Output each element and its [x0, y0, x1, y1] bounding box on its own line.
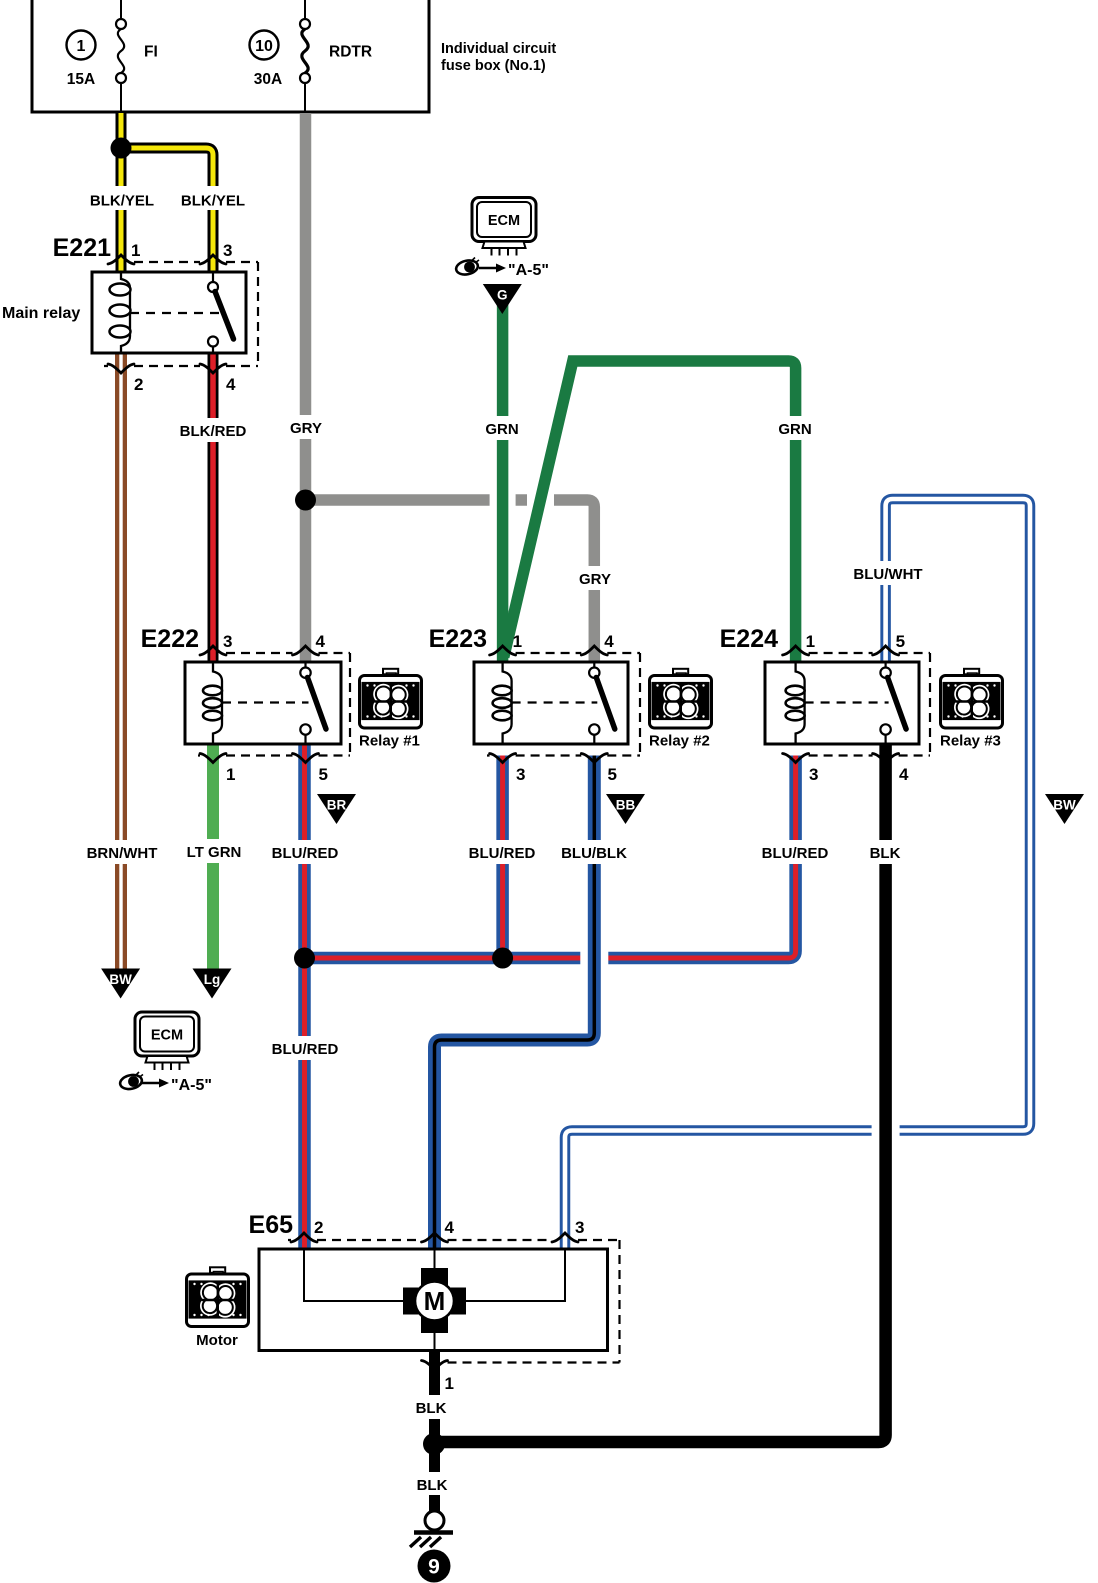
svg-text:1: 1: [77, 38, 86, 55]
svg-text:Relay #1: Relay #1: [359, 733, 420, 750]
E224 pin 3: [783, 754, 819, 785]
E65 pin 2: [291, 1218, 323, 1242]
svg-text:BLU/BLK: BLU/BLK: [561, 845, 627, 862]
svg-text:Relay #2: Relay #2: [649, 733, 710, 750]
relay E223: [474, 662, 628, 744]
E223 pin 5: [581, 754, 617, 785]
svg-text:"A-5": "A-5": [171, 1077, 212, 1094]
wire label GRY lower: [578, 566, 612, 590]
svg-text:GRN: GRN: [778, 421, 811, 438]
wire label BLU/RED d: [272, 1036, 339, 1060]
fuse 10 (RDTR 30A): [250, 0, 373, 113]
radiator fan icon Relay #1: [359, 669, 422, 750]
page arrow BR: [317, 794, 356, 824]
svg-text:BLU/RED: BLU/RED: [272, 845, 339, 862]
wire label BLU/WHT: [853, 561, 922, 585]
relay E222: [185, 662, 341, 744]
svg-text:BW: BW: [1053, 798, 1076, 813]
page arrow BW right: [1045, 794, 1084, 824]
ECM bottom: [135, 1012, 199, 1070]
svg-text:BW: BW: [109, 972, 132, 987]
E223 pin 3: [490, 754, 526, 785]
ground number 9: [418, 1550, 451, 1583]
wire label GRN left: [484, 416, 520, 440]
wire label BLU/RED a: [272, 840, 339, 864]
svg-text:Motor: Motor: [196, 1332, 238, 1349]
svg-text:3: 3: [223, 241, 232, 260]
E65 pin 4: [422, 1218, 455, 1242]
wire BLU/WHT from E224 pin 5 around right side to E65 pin 3: [565, 499, 1030, 1249]
ECM top: [472, 198, 536, 256]
wire label LT GRN: [187, 839, 242, 863]
wire BLK/RED from E221 pin 4 to E222 pin 3: [208, 353, 219, 662]
svg-text:5: 5: [319, 765, 328, 784]
svg-text:10: 10: [255, 38, 273, 55]
wire label BLK motor: [415, 1395, 447, 1419]
svg-text:4: 4: [226, 375, 236, 394]
wire label BLU/RED c: [762, 840, 829, 864]
svg-text:Individual circuit: Individual circuit: [441, 41, 556, 57]
page arrow BB: [606, 794, 645, 824]
wire GRY from fuse 10 to E222 pin 4: [300, 113, 312, 662]
svg-text:BLK/RED: BLK/RED: [180, 423, 247, 440]
svg-text:RDTR: RDTR: [329, 44, 372, 61]
svg-text:2: 2: [314, 1218, 323, 1237]
E221 pin 1: [108, 241, 140, 264]
eye symbol bottom: [119, 1072, 143, 1091]
svg-text:BLK/YEL: BLK/YEL: [181, 193, 245, 210]
svg-text:3: 3: [575, 1218, 584, 1237]
svg-text:GRN: GRN: [485, 421, 518, 438]
svg-text:3: 3: [516, 765, 525, 784]
E222 pin 5: [293, 754, 328, 785]
svg-text:5: 5: [608, 765, 617, 784]
junction node BLK ground: [423, 1433, 445, 1455]
svg-text:E221: E221: [53, 234, 111, 262]
svg-text:4: 4: [604, 632, 614, 651]
junction node BLU/RED right: [492, 948, 513, 969]
svg-text:BLK/YEL: BLK/YEL: [90, 193, 154, 210]
svg-text:4: 4: [316, 632, 326, 651]
wire BRN/WHT from E221 pin 2 to BW arrow: [115, 353, 127, 969]
wire GRN diagonal from E223 pin 1 up to horizontal and down to E224 pin 1: [504, 361, 796, 662]
wire LT GRN from E222 pin 1 to Lg arrow: [207, 744, 219, 969]
svg-text:BLK: BLK: [416, 1400, 447, 1417]
svg-text:"A-5": "A-5": [508, 262, 549, 279]
wire label BLK right: [869, 840, 901, 864]
wire BLU/RED from E223 pin 3 to junction: [496, 756, 509, 959]
wire label BLK/RED: [180, 418, 247, 442]
eye symbol top: [455, 258, 479, 277]
radiator fan icon Relay #3: [940, 669, 1003, 750]
svg-text:1: 1: [226, 765, 235, 784]
svg-text:1: 1: [513, 632, 522, 651]
svg-text:30A: 30A: [254, 71, 282, 88]
connector E65 motor box: [259, 1249, 608, 1351]
page arrow Lg: [193, 969, 232, 999]
wire label BLU/RED b: [469, 840, 536, 864]
white gap in GRY at GRN diagonal crossing: [527, 494, 554, 508]
svg-text:3: 3: [809, 765, 818, 784]
E221 pin 2: [108, 364, 143, 394]
connector E65 dashed outline: [288, 1240, 620, 1363]
E65 pin 3: [552, 1218, 584, 1242]
svg-text:1: 1: [445, 1374, 454, 1393]
ground symbol: [410, 1511, 453, 1547]
svg-text:E222: E222: [141, 625, 199, 653]
junction node BLU/RED left: [294, 948, 315, 969]
arrow to A-5 bottom: [142, 1079, 169, 1088]
wire label GRY upper: [289, 415, 323, 439]
svg-text:BLU/RED: BLU/RED: [762, 845, 829, 862]
E224 pin 4: [873, 754, 909, 785]
svg-text:1: 1: [131, 241, 140, 260]
svg-text:BLK: BLK: [417, 1477, 448, 1494]
svg-text:Lg: Lg: [204, 972, 221, 987]
E221 pin 3: [200, 241, 232, 264]
E222 pin 4: [293, 632, 326, 655]
wire BLK from E65 pin 1 to ground: [429, 1351, 440, 1512]
svg-text:BR: BR: [327, 798, 347, 813]
connector E224 dashed outline: [809, 653, 930, 756]
svg-text:5: 5: [896, 632, 905, 651]
junction node BLK/YEL: [111, 138, 132, 159]
E223 pin 1: [490, 632, 522, 655]
wire GRN from ECM G to E223 pin 1: [497, 300, 509, 662]
svg-text:1: 1: [806, 632, 815, 651]
wire label BLU/BLK: [561, 840, 627, 864]
svg-text:BLU/RED: BLU/RED: [469, 845, 536, 862]
connector E222 dashed outline: [198, 653, 350, 756]
E224 pin 1: [783, 632, 815, 655]
svg-text:E224: E224: [720, 625, 778, 653]
E224 pin 5: [873, 632, 905, 655]
svg-text:Main relay: Main relay: [2, 305, 80, 322]
white gap in BLU/WHT at BLK crossing: [872, 1122, 900, 1140]
wire BLU/RED from E224 pin 3 to junction: [305, 756, 796, 959]
wire BLK from E224 pin 4 to ground junction: [434, 744, 886, 1442]
wire label BLK/YEL left: [90, 186, 154, 210]
page arrow BW left: [101, 969, 140, 999]
radiator fan icon Relay #2: [649, 669, 712, 750]
Individual circuit fuse box (No.1): [32, 0, 556, 112]
svg-text:9: 9: [428, 1556, 440, 1579]
wire label BLK/YEL right: [181, 186, 245, 210]
svg-text:BB: BB: [616, 798, 636, 813]
E222 pin 3: [200, 632, 232, 655]
wire label BLK ground: [417, 1472, 448, 1495]
wire BLK/YEL from fuse 1 to E221 pin 1: [116, 113, 127, 272]
svg-text:BLU/RED: BLU/RED: [272, 1041, 339, 1058]
wire GRY branch to E223 pin 4: [306, 500, 595, 662]
E221 pin 4: [200, 364, 236, 394]
svg-text:GRY: GRY: [579, 571, 611, 588]
relay E224: [765, 662, 919, 744]
wire BLU/BLK from E223 pin 5 to E65 pin 4: [435, 756, 595, 1250]
connector E221 dashed outline: [104, 262, 258, 366]
E65 pin 1: [422, 1361, 454, 1394]
E223 pin 4: [581, 632, 614, 655]
svg-text:M: M: [424, 1286, 446, 1316]
wire BLK/YEL branch to E221 pin 3: [121, 148, 213, 272]
connector E223 dashed outline: [487, 653, 640, 756]
svg-text:BLU/WHT: BLU/WHT: [853, 566, 922, 583]
wire BLU/RED from E222 pin 5 down to E65 pin 2: [298, 744, 311, 1249]
white gap in GRY at GRN vertical crossing: [490, 494, 516, 508]
svg-text:2: 2: [134, 375, 143, 394]
svg-text:BLK: BLK: [870, 845, 901, 862]
junction node GRY: [295, 490, 316, 511]
svg-text:3: 3: [223, 632, 232, 651]
svg-text:FI: FI: [144, 44, 158, 61]
svg-text:LT GRN: LT GRN: [187, 844, 242, 861]
E222 pin 1: [200, 754, 235, 785]
svg-text:fuse box (No.1): fuse box (No.1): [441, 58, 546, 74]
white gap in BLU/RED at BLU/BLK crossing: [580, 951, 608, 966]
svg-text:15A: 15A: [67, 71, 95, 88]
svg-text:BRN/WHT: BRN/WHT: [87, 845, 158, 862]
svg-text:G: G: [497, 288, 508, 303]
page arrow G: [483, 284, 522, 314]
svg-text:4: 4: [445, 1218, 455, 1237]
svg-text:4: 4: [899, 765, 909, 784]
svg-text:Relay #3: Relay #3: [940, 733, 1001, 750]
wire label BRN/WHT: [87, 840, 158, 864]
arrow to A-5 top: [479, 264, 506, 273]
wire label GRN right: [777, 416, 813, 440]
svg-text:GRY: GRY: [290, 420, 322, 437]
svg-text:E65: E65: [249, 1211, 294, 1239]
relay E221 Main relay: [92, 272, 246, 353]
fuse 1 (FI 15A): [67, 0, 158, 113]
radiator fan icon Motor: [187, 1267, 249, 1349]
svg-text:E223: E223: [429, 625, 487, 653]
motor M symbol: [403, 1268, 466, 1333]
